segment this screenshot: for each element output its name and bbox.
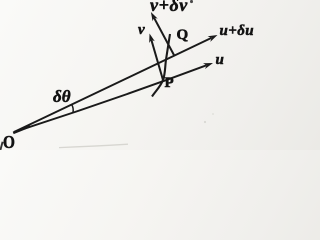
wire curved path through P and Q (trajectory) [152, 34, 170, 97]
label u [216, 53, 224, 68]
wire vector v shaft at P [151, 40, 163, 80]
label v [138, 23, 145, 38]
speck 1 [204, 121, 206, 123]
label u+du [220, 24, 255, 39]
speck top edge [190, 0, 193, 3]
faint pencil line along bottom [59, 144, 128, 147]
node u+du arrowhead [208, 35, 218, 42]
node v+dv arrowhead [151, 12, 158, 21]
node v arrowhead [149, 34, 155, 44]
arc delta-theta between rays [71, 104, 73, 113]
label Q [177, 28, 189, 43]
wire vector v+dv shaft from ray OQ [154, 18, 174, 56]
wire ray OP (radius through P, vector u) [14, 65, 206, 132]
figure: polar coordinates unit-vector diagram [0, 0, 259, 150]
label delta-theta [53, 88, 71, 105]
artifact stroke bottom-left edge [0, 142, 2, 150]
node u arrowhead [203, 63, 213, 69]
speck 2 [212, 113, 214, 115]
label v+dv [150, 0, 188, 14]
wire ray OQ (radius through Q, vector u+du) [14, 38, 211, 132]
label O (origin) [3, 133, 15, 151]
label P [165, 76, 174, 91]
wire thick merge of rays near O [13, 126, 30, 133]
